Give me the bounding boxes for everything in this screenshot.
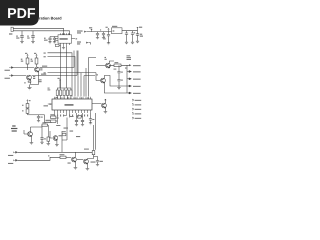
inductor L1 [55, 44, 59, 46]
label U2 [113, 30, 115, 31]
ground (Q7) [55, 145, 59, 147]
pin J3 arrow [84, 31, 86, 33]
pin header 5 [127, 92, 131, 94]
wire crystal caps [77, 117, 83, 121]
ground (C13) [37, 121, 40, 123]
label Q2 [33, 76, 35, 77]
label jumper 2 [132, 104, 133, 106]
pin arrow U3 left [50, 103, 52, 105]
resistor R6 [26, 104, 29, 108]
label jumper 1 [132, 99, 133, 101]
label C7 [104, 37, 106, 38]
wire right feed [89, 58, 97, 97]
wire Q7 base [50, 131, 53, 138]
ground (C8) [125, 42, 128, 44]
wire link under-IC (x67) [62, 118, 67, 141]
resistor R16 [92, 151, 95, 155]
label RN1 [56, 97, 58, 98]
op-amp U2 ldo box [112, 28, 123, 34]
ground (C17) [89, 123, 92, 125]
ground (C6) [102, 38, 105, 40]
label U1 [60, 38, 68, 39]
wire top rail V+ [13, 28, 64, 35]
wire Q8 emitter [74, 162, 76, 168]
ground (C5) [96, 38, 99, 40]
resistor RN5 [70, 90, 72, 96]
label net SCL [44, 53, 46, 54]
resistor R9 [47, 137, 50, 141]
capacitor C9 [131, 31, 134, 43]
label jumper 5 [132, 117, 133, 119]
resistor R3 [28, 81, 31, 82]
resistor R5 [114, 64, 121, 67]
node VCC flag right [137, 26, 139, 29]
label pin names row (U3 bottom) [54, 115, 88, 117]
label mid bottom [76, 136, 80, 137]
transistor Q7 [53, 136, 58, 141]
wire net SCL [48, 53, 73, 97]
wire Q3 collector [109, 61, 114, 63]
label R3 [24, 82, 26, 83]
label J6 B [8, 163, 13, 164]
op-amp U1 regulator box [58, 35, 72, 43]
label jumper 3 [132, 108, 133, 110]
ground (R9) [47, 144, 51, 146]
resistor R10 [51, 116, 56, 118]
wire long down right [95, 113, 97, 150]
wire under-IC stub1 [63, 113, 70, 118]
pin header 1 [129, 64, 131, 66]
wire U2 input cap drop [108, 32, 110, 35]
capacitor C13 [37, 115, 40, 121]
label below C18 [100, 161, 103, 162]
label R10 [50, 114, 54, 115]
wire second rail [13, 31, 70, 35]
resistor R11 [51, 120, 56, 122]
wire bus line 3 [77, 51, 79, 97]
wire U3 right pin to Q5 [92, 103, 102, 105]
capacitor C18 [96, 161, 99, 165]
connector J2 power input [11, 27, 13, 31]
wire Q7 emitter [56, 140, 58, 144]
ground (C3) [48, 42, 51, 44]
resistor R12 [62, 133, 66, 135]
label USB interface [12, 125, 15, 126]
ground (C14) [40, 142, 43, 144]
node VCC flag (pullups) [59, 79, 61, 81]
wire Q5 emitter [104, 108, 106, 112]
label R5 [115, 62, 119, 63]
transistor Q9 [84, 159, 89, 164]
wire U1 left pins [50, 37, 58, 41]
PDF badge [0, 0, 39, 26]
label C12 [121, 80, 123, 81]
label D1 [39, 79, 42, 80]
pin J6 B [14, 159, 18, 161]
wire U1 top pins [61, 33, 70, 35]
ground (C4) [53, 42, 56, 44]
ground (Q6) [30, 143, 34, 145]
pin header 3 [127, 78, 131, 80]
wire Q9 out right [94, 157, 98, 161]
wire link under-IC to bottom (x62) [61, 131, 63, 152]
ground (Q8) [74, 168, 78, 170]
wire USB chain down [45, 115, 53, 123]
label net SDA [44, 56, 46, 57]
label pin A [5, 70, 10, 71]
ground (C12) [117, 88, 121, 90]
wire Q6 rail [31, 125, 49, 127]
label power good [77, 41, 81, 42]
label C1 [16, 36, 18, 37]
label U3 [65, 104, 74, 105]
ground (C15) [75, 125, 78, 127]
resistor R17 [60, 156, 66, 158]
wire Q8 collector [60, 152, 94, 157]
node VIN flag [108, 28, 110, 31]
capacitor C4 (U1 input2) [53, 37, 56, 42]
label R8 [42, 122, 46, 123]
transistor Q3 [106, 63, 111, 68]
wire net SDA [48, 57, 76, 97]
label C14 [44, 138, 46, 139]
transistor Q6 [28, 132, 33, 137]
label R12 [62, 131, 66, 132]
wire battery rail [86, 31, 111, 33]
wire J6B right [18, 157, 60, 160]
capacitor C17 [89, 113, 92, 123]
wire U1 bottom pins [57, 43, 70, 47]
label R17 [60, 154, 65, 155]
label R10 block [46, 120, 51, 121]
capacitor C15 [75, 120, 78, 124]
capacitor C5 [96, 32, 99, 38]
label Q7 [59, 135, 63, 136]
ground (C16) [81, 125, 84, 127]
label pin numbers row (U3 top) [55, 97, 88, 99]
label net LED2 [41, 74, 46, 75]
pin input B [9, 75, 13, 77]
wire header column [126, 65, 128, 93]
label under-IC misc2 [70, 131, 74, 132]
label VOUT pin [76, 38, 78, 39]
label Q4 [97, 74, 99, 75]
resistor RN1 [56, 90, 58, 96]
resistor R7 [26, 109, 29, 113]
label net LED1 [42, 66, 47, 67]
resistor R1 [26, 58, 29, 64]
svg-text:ration Board: ration Board [39, 17, 62, 21]
resistor RN3 [63, 90, 65, 96]
capacitor C16 [81, 120, 84, 124]
label jumper 4 [132, 113, 133, 115]
pin TP1 [86, 42, 88, 44]
label TP bottom [68, 163, 71, 164]
wire pin B to Q2 [13, 51, 77, 76]
wire cap drops [22, 31, 33, 36]
wire Q9 base link [77, 159, 83, 161]
resistor RN2 [60, 90, 62, 96]
wire U3 bottom pins [55, 110, 91, 113]
capacitor C1 [20, 36, 24, 42]
wire U1 rail drop 2 [66, 46, 68, 88]
label Q3 [105, 57, 107, 58]
label J6 A [8, 155, 13, 156]
ground (C7) [107, 43, 110, 45]
label J2 [9, 33, 12, 34]
label XTAL [70, 116, 74, 117]
label R1 [21, 59, 23, 60]
capacitor C14 [40, 127, 43, 142]
wire long down right pair [93, 125, 95, 150]
crystal Y1 [77, 113, 83, 118]
capacitor C3 (U1 input) [48, 37, 51, 42]
node VCC flag (R1) [27, 54, 29, 56]
node VCC flag (USB) [27, 100, 29, 102]
label U2 part [112, 26, 117, 27]
capacitor C6 polarized [102, 32, 105, 38]
wire R16 top [87, 150, 93, 160]
resistor R8 [42, 124, 48, 126]
label C13 [41, 117, 43, 118]
wire R17 to Q8 [66, 156, 71, 158]
wire U1 right pin [72, 38, 76, 40]
wire bus line 5 [84, 76, 95, 97]
label battery input [77, 30, 83, 31]
label net IRQ [44, 72, 46, 73]
capacitor C10 polarized [136, 31, 139, 42]
label C10 [140, 34, 142, 35]
wire Q9 emitter [86, 164, 88, 169]
wire Q1 emitter down [31, 72, 39, 85]
wire Q4 collector [104, 76, 127, 87]
wire R5 out [109, 65, 129, 68]
label R2 [31, 59, 33, 60]
node VCC flag (R2) [36, 54, 38, 56]
wire U3 top pins [55, 97, 91, 99]
transistor Q1 [35, 67, 40, 72]
wire Q2 emitter down [29, 80, 32, 88]
wire U1 rail drop 1 [60, 46, 62, 89]
ground (U1) [62, 48, 65, 50]
transistor Q2 [27, 75, 32, 80]
pin header 2 [127, 71, 131, 73]
label Q1 [40, 68, 42, 69]
transistor Q4 [101, 78, 106, 83]
svg-text:PDF: PDF [7, 6, 36, 22]
op-amp U3 microcontroller [52, 99, 92, 110]
capacitor C11 [117, 65, 120, 75]
wire Q4 emitter [104, 83, 127, 93]
capacitor C8 [125, 31, 128, 43]
ground (C18) [96, 165, 99, 167]
label C3b [44, 40, 48, 41]
pin J6 A [14, 151, 18, 153]
wire Q3 base [96, 65, 105, 67]
label pin B [5, 78, 10, 79]
label bottom right of Q9 [91, 162, 96, 163]
ground (C2) [31, 42, 35, 44]
label R5 value [114, 69, 117, 70]
label C3 [44, 38, 46, 39]
label CM [125, 68, 127, 69]
wire Q6 base [24, 130, 27, 134]
wire Q6 emitter [30, 136, 32, 142]
label R6 [22, 105, 24, 106]
wire J6A right [18, 151, 60, 153]
wire U2 output rail [122, 27, 138, 31]
label C11 [121, 72, 123, 73]
wire pullup rail [57, 82, 71, 89]
label R11 [56, 125, 60, 126]
label U3 left pin [44, 105, 49, 106]
wire Q4 base [96, 73, 100, 81]
wire bus line 6 [85, 68, 87, 97]
pin input A [9, 67, 13, 69]
ground (C1) [20, 42, 24, 44]
label C2 [27, 36, 29, 37]
node VBAT flag [91, 29, 93, 32]
wire Q6 collector [30, 127, 32, 132]
ground (C9) [131, 42, 134, 44]
resistor R2 [35, 58, 38, 64]
ground (Q5) [104, 112, 108, 114]
wire Q5 collector [105, 99, 107, 103]
ground (C10) [136, 41, 139, 43]
ground (Q9) [86, 169, 90, 171]
wire pin A to Q1 [13, 51, 74, 68]
capacitor C2 [31, 36, 35, 42]
wire U3 left pin [48, 103, 52, 105]
transistor Q8 [72, 157, 77, 162]
label power header [127, 55, 131, 56]
label under-IC misc1 [64, 128, 69, 129]
label R16 [84, 149, 89, 150]
pin header 4 [127, 85, 131, 87]
label C17 [92, 119, 94, 120]
resistor RN4 [66, 90, 68, 96]
capacitor C7 [107, 35, 110, 43]
wire net IRQ [48, 73, 97, 97]
label R7 [22, 110, 24, 111]
ground (LED) [27, 88, 31, 90]
transistor Q5 [102, 103, 107, 108]
capacitor C12 [117, 75, 120, 88]
label TP2 [48, 155, 49, 156]
label pullup rail [48, 88, 50, 89]
